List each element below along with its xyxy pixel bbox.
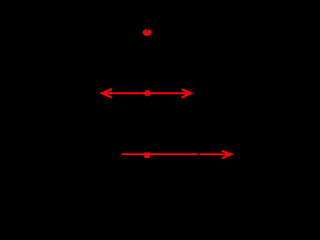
wire (black vertical line crossing bottom arrow) bbox=[198, 151, 200, 158]
wire (black vertical line above bottom dot) bbox=[146, 150, 148, 154]
dot P1 (top object) bbox=[143, 29, 152, 36]
dot P3 (bottom object) bbox=[144, 152, 151, 159]
arrow F-left head bbox=[102, 89, 112, 98]
arrow F-left shaft (middle double arrow) bbox=[104, 92, 190, 94]
wire (black string over top dot) bbox=[146, 27, 148, 33]
wire (black vertical line through middle dot) bbox=[146, 90, 148, 96]
dot P2 (middle object) bbox=[144, 90, 150, 96]
arrow V head bbox=[222, 151, 231, 158]
arrow V shaft (bottom arrow) bbox=[121, 153, 224, 155]
arrow F-right head bbox=[182, 89, 191, 97]
